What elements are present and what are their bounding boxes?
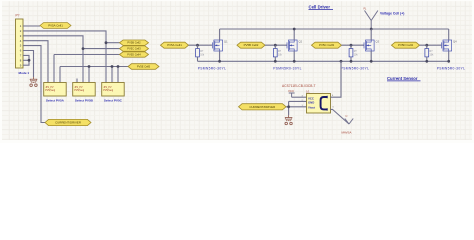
junction bus x=371.2 (370, 60, 373, 63)
junction rail/power tap (370, 28, 373, 31)
ground symbol (sensor) (285, 115, 292, 124)
wire pin7-pin9 loop (23, 55, 29, 65)
wire GND to U1 pin2 (289, 100, 307, 102)
power port Voltage Cell (+) (365, 11, 378, 30)
wire pin6 to ground (23, 51, 34, 78)
sense loop symbol (321, 97, 328, 109)
svg-text:Select PV5C: Select PV5C (104, 99, 123, 103)
transistor Q3 (NMOS) (364, 40, 374, 51)
svg-text:PV5C Cell3: PV5C Cell3 (319, 43, 334, 47)
junction bus x=275.3 (274, 60, 277, 63)
ground symbol (connector) (30, 77, 37, 86)
junction node GND/port crossing (287, 105, 290, 108)
port CURRENT/DRIVER (left) (45, 119, 91, 125)
resistor R Q4 (425, 49, 429, 57)
junction bus x=219.6 (218, 60, 221, 63)
transistor Q1 (NMOS) (212, 40, 222, 51)
svg-text:Q1: Q1 (224, 40, 228, 44)
svg-text:PV5(Seq): PV5(Seq) (74, 90, 84, 92)
wire VCC to U1 pin3 (292, 96, 307, 98)
resistor R Q3 (349, 49, 353, 57)
svg-text:CURRENT/DRIVER: CURRENT/DRIVER (249, 105, 275, 109)
transistor Q2 (NMOS) (287, 40, 297, 51)
wire pin5 to CURRENT port (23, 46, 45, 123)
junction gate/Q3 resistor top (350, 44, 353, 47)
port PV5C Cell3 (120, 46, 149, 51)
port PV5A Cell1 (40, 23, 71, 29)
port PV5C Cell3 (gate) (312, 42, 342, 48)
wire GND vertical (288, 101, 290, 115)
IC U1 current sensor (307, 94, 331, 114)
svg-text:PSMN5R0-30YL: PSMN5R0-30YL (341, 66, 370, 70)
junction gate/Q2 resistor top (274, 44, 277, 47)
junction bus x=294.2 (293, 60, 296, 63)
wire source Q1 (219, 51, 221, 61)
junction node row2 (82, 47, 85, 50)
sheet symbol Select PV5A (44, 83, 66, 97)
svg-text:PV5(Seq): PV5(Seq) (45, 90, 55, 92)
wire row4 to port PV5E Cell5 (60, 66, 128, 68)
wire box3 pin2 vertical (111, 67, 113, 83)
wire U1 pin4 to bus (331, 61, 342, 97)
wire box1 pin2 vertical (53, 55, 55, 83)
junction node pin2/port row1 (105, 41, 108, 44)
svg-text:PV5B Cell2: PV5B Cell2 (244, 43, 259, 47)
wire source Q3 (370, 51, 372, 61)
svg-text:Q3: Q3 (376, 40, 380, 44)
svg-text:PSMN5R0-30YL: PSMN5R0-30YL (198, 66, 227, 70)
junction bus x=448.7 (447, 60, 450, 63)
svg-text:JP1_PV: JP1_PV (103, 87, 112, 89)
sheet symbol Select PV5C (102, 83, 125, 97)
svg-text:PV5B Cell2: PV5B Cell2 (127, 41, 141, 45)
wire to port PV5B Cell2 (106, 42, 120, 44)
junction rail/Q2 drain (293, 28, 296, 31)
wire source Q4 (448, 51, 450, 61)
port PV5B Cell2 (gate) (237, 42, 265, 48)
svg-text:P?: P? (16, 14, 20, 18)
wire pin4 bracket to box1 pin1 (23, 41, 48, 83)
wire row2 to port PV5C Cell3 (83, 48, 120, 50)
junction bus x=426.8 (425, 60, 428, 63)
wire row3 to port PV5D Cell4 (54, 54, 120, 56)
connector P? (16, 19, 24, 68)
svg-text:ACS711ELCB-03CB-T: ACS711ELCB-03CB-T (282, 84, 316, 88)
transistor Q4 (NMOS) (442, 40, 452, 51)
svg-text:Select PV5A: Select PV5A (46, 99, 65, 103)
svg-text:PV5A Cell1: PV5A Cell1 (48, 24, 63, 28)
wire U1 pin5 diagonal (331, 109, 350, 124)
svg-text:PV5D Cell4: PV5D Cell4 (127, 52, 141, 56)
junction gate/Q4 resistor top (425, 44, 428, 47)
wire source bus (198, 60, 449, 62)
svg-text:Voltage Cell (+): Voltage Cell (+) (380, 12, 404, 16)
svg-text:PV5(Seq): PV5(Seq) (103, 90, 113, 92)
wire source Q2 (293, 51, 295, 61)
svg-text:PSMN5R0-30YL: PSMN5R0-30YL (437, 66, 466, 70)
junction pins 7-8-9 (28, 59, 31, 62)
wire box2 pin1 stub (76, 79, 78, 83)
wire gate Q3 (342, 44, 365, 46)
svg-text:Q2: Q2 (299, 40, 303, 44)
wire drain Q4 (448, 29, 450, 40)
wire drain Q2 (293, 29, 295, 40)
power port MAVSA (345, 119, 353, 125)
sheet symbol Select PV5B (73, 83, 96, 97)
wire CURRENT port to U1 pin1 (286, 106, 307, 108)
svg-text:Viout: Viout (308, 106, 315, 110)
svg-text:Current Sensor: Current Sensor (387, 76, 418, 81)
wire gate Q1 (189, 44, 213, 46)
wire pin1 to port PV5A (23, 25, 40, 27)
port CURRENT/DRIVER (sensor) (239, 104, 287, 110)
svg-text:Cell Driver: Cell Driver (309, 4, 331, 9)
wire pin8 to loop (23, 59, 29, 61)
junction bus x=351 (350, 60, 353, 63)
svg-text:PSMN5R0-30YL: PSMN5R0-30YL (273, 66, 302, 70)
junction node row4/box2p3 (88, 65, 91, 68)
port PV5E Cell5 (128, 64, 159, 70)
svg-text:JP1_PV: JP1_PV (74, 87, 83, 89)
svg-text:PV5A Cell1: PV5A Cell1 (167, 43, 182, 47)
resistor R Q1 (196, 49, 200, 57)
resistor R Q2 (273, 49, 277, 57)
wire drain Q1 (219, 29, 221, 40)
port PV5D Cell4 (gate) (392, 42, 420, 48)
junction node row4/box3p3 (117, 65, 120, 68)
junction bus x=341 (340, 60, 343, 63)
svg-text:CURRENT/DRIVER: CURRENT/DRIVER (55, 121, 81, 125)
wire top rail (Voltage Cell +) (220, 28, 449, 30)
svg-text:JP1_PV: JP1_PV (45, 87, 54, 89)
wire box2 pin3 vertical (88, 67, 90, 83)
port PV5D Cell4 (120, 52, 149, 57)
wire box1 pin3 vertical (59, 67, 61, 83)
port PV5B Cell2 (120, 40, 149, 45)
svg-text:GND: GND (308, 101, 314, 105)
svg-text:MAVSA: MAVSA (342, 131, 352, 135)
svg-text:PV5E Cell5: PV5E Cell5 (137, 64, 151, 68)
wire box3 pin3 vertical (117, 67, 119, 83)
svg-text:Q4: Q4 (453, 40, 457, 44)
port PV5A Cell1 (gate) (161, 42, 189, 48)
svg-text:Mode 1: Mode 1 (19, 71, 30, 75)
svg-text:PV5C Cell3: PV5C Cell3 (127, 47, 141, 51)
junction gate/Q1 resistor top (196, 44, 199, 47)
junction node row4/box3p2 (111, 65, 114, 68)
svg-text:1/1: 1/1 (306, 89, 310, 93)
wire pin3 bracket to box2 pin2 (23, 36, 83, 83)
wire gate Q4 (420, 44, 442, 46)
wire gate Q2 (265, 44, 287, 46)
svg-text:PV5D Cell4: PV5D Cell4 (398, 43, 413, 47)
wire drain Q3 (370, 29, 372, 40)
svg-text:Select PV5B: Select PV5B (75, 99, 94, 103)
wire pin2 bracket to box3 pin1 (23, 31, 106, 83)
